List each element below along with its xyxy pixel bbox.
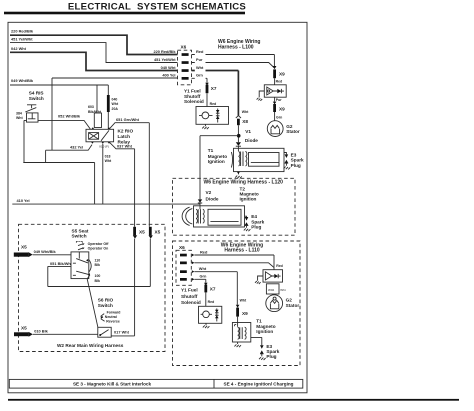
svg-text:384: 384 — [16, 111, 22, 115]
svg-text:Harness - L100: Harness - L100 — [218, 44, 254, 50]
svg-text:049 Wht/Blk: 049 Wht/Blk — [34, 249, 57, 254]
svg-text:Operator On: Operator On — [88, 246, 109, 250]
svg-text:X9: X9 — [279, 71, 285, 76]
svg-text:X8: X8 — [242, 119, 248, 124]
svg-text:T1: T1 — [208, 148, 214, 153]
svg-text:Wht: Wht — [196, 65, 204, 70]
svg-text:SE 3 - Magneto Kill & Start In: SE 3 - Magneto Kill & Start Interlock — [73, 382, 152, 387]
svg-text:Solenoid: Solenoid — [181, 300, 201, 305]
svg-text:K2 RIO: K2 RIO — [118, 129, 134, 134]
svg-text:W6 Engine Wiring Harness - L12: W6 Engine Wiring Harness - L120 — [204, 180, 284, 186]
svg-text:Wht: Wht — [105, 159, 112, 163]
svg-text:410 Yel: 410 Yel — [17, 198, 30, 203]
svg-text:Red: Red — [200, 249, 208, 254]
svg-text:Wht: Wht — [16, 116, 23, 120]
svg-text:X10 (F): X10 (F) — [99, 144, 109, 148]
svg-text:Grn: Grn — [200, 274, 208, 279]
svg-text:040 Wht: 040 Wht — [161, 65, 177, 70]
svg-text:Blk: Blk — [95, 279, 101, 283]
svg-text:Stator: Stator — [286, 129, 300, 134]
svg-text:G2: G2 — [286, 124, 293, 129]
svg-text:S6 RIO: S6 RIO — [98, 298, 114, 303]
svg-text:Reverse: Reverse — [106, 319, 120, 323]
svg-text:Grn: Grn — [276, 116, 282, 120]
svg-text:Wht: Wht — [240, 298, 247, 302]
svg-text:Shutoff: Shutoff — [184, 94, 201, 99]
svg-text:051 Blk/Wht: 051 Blk/Wht — [50, 261, 73, 266]
svg-text:220 Red/Blk: 220 Red/Blk — [153, 49, 176, 54]
svg-text:451 Yel/Wht: 451 Yel/Wht — [11, 37, 33, 42]
svg-text:20A: 20A — [112, 107, 119, 111]
svg-text:Diode: Diode — [206, 196, 219, 201]
svg-text:017 Wht: 017 Wht — [114, 329, 130, 334]
svg-text:Stator: Stator — [286, 303, 300, 308]
svg-text:Plug: Plug — [266, 354, 276, 359]
svg-text:Red: Red — [196, 49, 204, 54]
svg-text:651 Grn/Wht: 651 Grn/Wht — [116, 117, 140, 122]
svg-text:X9: X9 — [279, 107, 285, 112]
svg-text:ELECTRICAL SYSTEM SCHEMATICS: ELECTRICAL SYSTEM SCHEMATICS — [68, 2, 247, 13]
svg-text:Plug: Plug — [251, 225, 261, 230]
svg-text:Pur: Pur — [196, 57, 203, 62]
svg-text:S5 Seat: S5 Seat — [72, 228, 89, 233]
svg-text:110: 110 — [95, 259, 101, 263]
svg-text:451 Yel/Wht: 451 Yel/Wht — [154, 57, 176, 62]
svg-text:SE 4 - Engine Ignition/ Chargi: SE 4 - Engine Ignition/ Charging — [224, 382, 294, 387]
svg-text:Wht: Wht — [280, 288, 286, 292]
svg-text:Grn: Grn — [196, 73, 204, 78]
svg-text:Forward: Forward — [107, 310, 121, 314]
svg-text:Wht: Wht — [199, 266, 207, 271]
svg-text:Switch: Switch — [29, 96, 44, 101]
svg-text:Ignition: Ignition — [240, 196, 257, 201]
svg-text:100: 100 — [95, 274, 101, 278]
svg-text:Y1 Fuel: Y1 Fuel — [181, 288, 198, 293]
svg-text:Wht: Wht — [112, 102, 119, 106]
svg-text:Wht: Wht — [242, 110, 249, 114]
svg-text:Switch: Switch — [98, 303, 113, 308]
svg-text:X7: X7 — [211, 86, 217, 91]
svg-text:Red: Red — [276, 264, 283, 268]
svg-text:Red: Red — [276, 79, 283, 83]
svg-text:X6: X6 — [179, 245, 185, 250]
svg-text:010 Blk: 010 Blk — [34, 329, 48, 334]
svg-text:X7: X7 — [210, 286, 216, 291]
svg-text:Red: Red — [210, 102, 217, 106]
svg-text:V1: V1 — [245, 129, 251, 134]
svg-text:W02: W02 — [268, 288, 275, 292]
svg-text:X5: X5 — [21, 244, 27, 249]
svg-text:432 Yel: 432 Yel — [70, 144, 83, 149]
svg-text:Y1 Fuel: Y1 Fuel — [184, 89, 201, 94]
svg-text:X5: X5 — [155, 230, 161, 235]
svg-text:Harness - L110: Harness - L110 — [224, 248, 260, 254]
svg-text:Diode: Diode — [245, 138, 258, 143]
svg-text:Pur: Pur — [276, 98, 282, 102]
svg-text:603: 603 — [88, 105, 94, 109]
svg-text:S4 RIS: S4 RIS — [29, 91, 44, 96]
svg-text:Red: Red — [208, 300, 215, 304]
svg-text:049 Wht/Blk: 049 Wht/Blk — [11, 78, 34, 83]
svg-text:X6: X6 — [181, 45, 187, 50]
svg-text:Neutral: Neutral — [105, 315, 117, 319]
svg-text:052 Wht/Blk: 052 Wht/Blk — [58, 114, 81, 119]
svg-text:400 Yel: 400 Yel — [162, 73, 175, 78]
svg-text:Ignition: Ignition — [208, 159, 225, 164]
svg-text:Shutoff: Shutoff — [181, 294, 198, 299]
svg-text:Switch: Switch — [72, 234, 87, 239]
svg-text:Solenoid: Solenoid — [184, 99, 204, 104]
svg-text:Ignition: Ignition — [256, 329, 273, 334]
svg-text:Operator Off: Operator Off — [88, 242, 110, 246]
svg-text:V2: V2 — [206, 190, 212, 195]
svg-text:220 Red/Blk: 220 Red/Blk — [11, 29, 34, 34]
svg-text:042 Wht: 042 Wht — [11, 46, 27, 51]
svg-text:Plug: Plug — [291, 163, 301, 168]
svg-text:W2 Rear Main Wiring Harness: W2 Rear Main Wiring Harness — [57, 343, 124, 348]
svg-text:Blk: Blk — [95, 263, 101, 267]
svg-text:040: 040 — [112, 98, 118, 102]
svg-text:018: 018 — [105, 155, 111, 159]
svg-text:X5: X5 — [21, 326, 27, 331]
svg-text:X9: X9 — [242, 311, 248, 316]
svg-text:G2: G2 — [286, 298, 293, 303]
svg-text:037 Wht: 037 Wht — [117, 143, 133, 148]
svg-text:X5: X5 — [139, 230, 145, 235]
svg-text:Latch: Latch — [118, 134, 131, 139]
